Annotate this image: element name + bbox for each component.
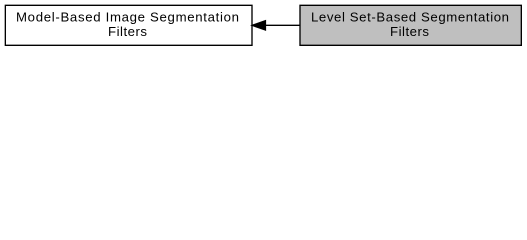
node Node2: Model-Based Image Segmentation Filters (white box)	[5, 5, 252, 45]
svg-text:Level Set-Based Segmentation: Level Set-Based Segmentation	[311, 9, 509, 24]
svg-text:Filters: Filters	[390, 24, 429, 39]
wire: edge shaft from grey box to arrowhead	[266, 24, 300, 26]
svg-text:Model-Based Image Segmentation: Model-Based Image Segmentation	[16, 9, 239, 24]
svg-text:Filters: Filters	[108, 24, 147, 39]
background	[0, 0, 527, 51]
node Node1: Level Set-Based Segmentation Filters (grey highlighted box)	[300, 5, 521, 45]
arrowhead pointing at white box	[252, 21, 265, 30]
